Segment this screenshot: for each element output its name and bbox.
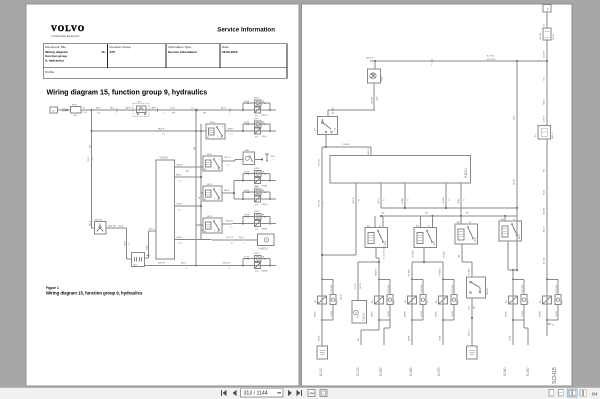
relay RE20 — [365, 228, 388, 248]
svg-text:Date: Date — [222, 45, 229, 49]
svg-text:MA M5: MA M5 — [435, 311, 438, 317]
tick — [431, 59, 433, 62]
bus wire 2 — [200, 124, 202, 240]
svg-text:970: 970 — [255, 115, 258, 117]
relay contact right chain — [546, 278, 548, 280]
svg-text:9B 75A: 9B 75A — [552, 34, 555, 40]
svg-text:8.110: 8.110 — [319, 368, 323, 376]
svg-text:TRIG: TRIG — [271, 156, 276, 158]
fuse branch of MA M5 — [443, 278, 454, 280]
svg-text:D13: D13 — [337, 300, 339, 303]
svg-text:D 4: D 4 — [535, 134, 537, 137]
svg-text:9 70A: 9 70A — [244, 173, 250, 176]
svg-text:CHA B: CHA B — [176, 236, 182, 239]
svg-text:9B2: 9B2 — [203, 113, 206, 115]
wire vertical feed — [91, 110, 93, 228]
svg-text:EA15: EA15 — [96, 106, 101, 109]
relay RE13 — [203, 218, 222, 233]
svg-text:9: 9 — [243, 243, 244, 245]
svg-text:FRSA B: FRSA B — [442, 197, 445, 204]
junction bus — [195, 109, 197, 111]
svg-text:9A02 B: 9A02 B — [158, 128, 165, 131]
svg-text:POLL W: POLL W — [226, 237, 233, 239]
toolbar continuous icon — [559, 390, 564, 397]
svg-text:COM F: COM F — [176, 204, 183, 206]
bus wire — [195, 110, 197, 266]
svg-text:B1: B1 — [469, 222, 471, 224]
svg-text:D42: D42 — [506, 300, 508, 303]
V-ECU pin wire TRIG B — [175, 166, 204, 168]
svg-text:D7P 5: D7P 5 — [254, 119, 259, 121]
svg-text:TNQ 9: TNQ 9 — [238, 237, 244, 239]
svg-text:G01 EC9: G01 EC9 — [368, 148, 370, 155]
svg-text:RE22: RE22 — [475, 237, 477, 242]
table column separators — [107, 44, 109, 68]
svg-text:9 1: 9 1 — [358, 199, 360, 201]
wire block1 output — [375, 248, 377, 259]
V-ECU pin wire 3 — [175, 205, 202, 207]
svg-text:E19V 600: E19V 600 — [487, 59, 495, 61]
svg-text:SW9701: SW9701 — [95, 219, 104, 221]
svg-text:900: 900 — [474, 306, 476, 309]
wire chain5 end — [512, 320, 514, 345]
svg-text:B1: B1 — [513, 219, 515, 221]
svg-text:9 70A: 9 70A — [244, 191, 250, 194]
V-ECU pin wire GMV B — [380, 183, 382, 208]
svg-text:H-ECU: H-ECU — [259, 246, 268, 250]
svg-text:9 70A: 9 70A — [244, 123, 250, 126]
svg-text:9A05: 9A05 — [146, 254, 150, 257]
document info table frame — [43, 44, 287, 79]
svg-text:B1: B1 — [379, 226, 381, 228]
svg-text:CAFF D: CAFF D — [125, 106, 132, 109]
svg-text:9.080: 9.080 — [409, 367, 413, 376]
svg-text:84: 84 — [592, 391, 598, 397]
svg-text:370: 370 — [110, 50, 115, 54]
fuse D7P 5 parallel branch — [242, 130, 244, 132]
svg-text:D42: D42 — [315, 300, 317, 303]
svg-text:FB02 A4: FB02 A4 — [370, 97, 373, 104]
battery terminal 30 — [543, 5, 551, 13]
svg-text:CB 5: CB 5 — [543, 77, 545, 81]
svg-text:9B 900: 9B 900 — [510, 336, 512, 341]
wire main right chain — [546, 40, 548, 126]
svg-text:AV 9000: AV 9000 — [443, 252, 446, 258]
svg-text:B1: B1 — [428, 226, 430, 228]
svg-text:A2 1364: A2 1364 — [487, 54, 494, 57]
toolbar single page icon — [549, 390, 554, 397]
wire switch output — [106, 227, 127, 229]
svg-text:RE10: RE10 — [210, 122, 216, 124]
svg-text:9B 91A: 9B 91A — [542, 257, 545, 264]
svg-text:WC 9: WC 9 — [88, 156, 90, 161]
toolbar prev-page button — [233, 390, 237, 396]
svg-text:9.070: 9.070 — [437, 367, 441, 376]
wire jog left — [328, 109, 375, 111]
relay contact MRBT — [243, 223, 276, 225]
svg-text:900: 900 — [358, 338, 360, 341]
svg-text:9A0 B: 9A0 B — [224, 189, 230, 192]
wire block4 output — [507, 241, 509, 270]
svg-text:96: 96 — [552, 325, 554, 327]
svg-text:D7B 9: D7B 9 — [254, 253, 259, 255]
wire — [546, 12, 548, 28]
svg-text:7 6: 7 6 — [162, 134, 165, 136]
svg-text:9A 900: 9A 900 — [317, 336, 320, 341]
svg-text:MRBT: MRBT — [262, 228, 268, 230]
svg-text:RH02 H: RH02 H — [468, 329, 470, 336]
svg-text:15,: 15, — [101, 50, 105, 54]
fuse FU1 — [543, 28, 551, 40]
wire bottom rail — [145, 265, 244, 267]
ECU I-ECU — [352, 301, 366, 324]
svg-text:9.060: 9.060 — [503, 367, 507, 376]
tick — [229, 108, 231, 111]
svg-text:G4 C1 9: G4 C1 9 — [360, 283, 362, 289]
switch SW9701 — [95, 222, 107, 235]
relay RE23 — [499, 221, 522, 241]
wire chain2 branch end — [389, 320, 391, 328]
svg-text:function group: function group — [45, 54, 67, 58]
table row separator — [43, 67, 287, 69]
svg-text:X2: X2 — [231, 243, 233, 245]
svg-text:9.050: 9.050 — [526, 367, 530, 376]
svg-text:B9: B9 — [543, 24, 545, 26]
fuse branch of MA M7 — [379, 278, 390, 280]
svg-text:V-ECU: V-ECU — [160, 155, 169, 159]
svg-text:G004: G004 — [377, 97, 379, 101]
relay contact MA M6 — [411, 278, 413, 280]
svg-text:D42: D42 — [372, 300, 374, 303]
svg-text:MRB0: MRB0 — [262, 185, 268, 187]
svg-text:Figure 1: Figure 1 — [46, 286, 59, 290]
tick — [196, 108, 198, 111]
wire — [58, 109, 71, 111]
svg-text:MRQ9: MRQ9 — [262, 204, 269, 206]
svg-text:RE23: RE23 — [519, 234, 521, 239]
svg-text:D13: D13 — [394, 300, 396, 303]
lamp D7A 4 — [255, 170, 262, 176]
wire switch chain down — [471, 298, 473, 346]
wire mid rail — [381, 207, 517, 209]
wire TA02 output — [255, 159, 263, 161]
tick — [157, 108, 159, 111]
svg-text:SW B: SW B — [124, 240, 126, 246]
wire rail2 — [92, 130, 207, 132]
tick — [116, 108, 118, 111]
svg-text:MA M9: MA M9 — [314, 311, 317, 317]
svg-text:Service Information: Service Information — [217, 27, 275, 34]
svg-text:TRIG B: TRIG B — [176, 165, 183, 167]
svg-text:Document Title: Document Title — [45, 45, 66, 49]
svg-text:POA B: POA B — [457, 198, 460, 204]
svg-text:1: 1 — [431, 64, 432, 66]
svg-text:9 2: 9 2 — [178, 210, 181, 212]
svg-text:SW1 2: SW1 2 — [149, 228, 155, 230]
fuse branch of MA M9 — [322, 278, 333, 280]
junction main drop — [91, 109, 93, 111]
riser — [420, 216, 422, 228]
fuse D7B 9 parallel branch — [242, 265, 244, 267]
wire block2 to TA02 — [222, 160, 235, 162]
relay contact MA M9 — [321, 278, 323, 280]
svg-text:7 2: 7 2 — [407, 199, 409, 201]
svg-text:I-ECU: I-ECU — [361, 313, 365, 321]
lamp D7A 5 — [255, 189, 262, 195]
svg-text:MA M6: MA M6 — [404, 311, 407, 317]
svg-text:SW1 9A: SW1 9A — [317, 200, 320, 207]
svg-text:1: 1 — [116, 113, 117, 115]
relay contact MRB0 — [243, 180, 276, 182]
svg-text:1 5B 888: 1 5B 888 — [342, 144, 349, 146]
terminal box chain1 — [317, 346, 328, 359]
svg-text:D13: D13 — [427, 300, 429, 303]
svg-text:RE21: RE21 — [434, 241, 436, 246]
relay RE22 — [455, 224, 478, 244]
svg-text:9A05: 9A05 — [133, 263, 137, 266]
svg-text:9A02 W: 9A02 W — [226, 220, 233, 223]
fuse FH12 — [71, 107, 82, 114]
svg-text:9AQ 9: 9AQ 9 — [181, 261, 186, 264]
svg-text:FU1 31A: FU1 31A — [539, 32, 542, 40]
svg-text:RE20: RE20 — [385, 241, 387, 246]
wire chain1 end — [321, 320, 323, 346]
svg-text:RH02 W: RH02 W — [366, 58, 373, 60]
svg-text:D42: D42 — [405, 300, 407, 303]
svg-text:9A02 4: 9A02 4 — [542, 99, 545, 105]
svg-text:28.06.2013: 28.06.2013 — [222, 50, 238, 54]
svg-text:D7B 4: D7B 4 — [254, 211, 259, 213]
lamp D7P 5 — [255, 121, 262, 127]
svg-text:D42: D42 — [436, 300, 438, 303]
svg-text:D13: D13 — [562, 300, 564, 303]
svg-text:1: 1 — [164, 113, 165, 115]
svg-text:IO C1 W: IO C1 W — [355, 283, 357, 290]
V-ECU pin wire 2 — [175, 176, 202, 178]
svg-text:100: 100 — [97, 113, 100, 115]
svg-text:GMV B: GMV B — [378, 197, 380, 204]
svg-text:7 9: 7 9 — [230, 134, 233, 136]
svg-text:9V0A B: 9V0A B — [401, 197, 404, 204]
svg-text:D7P 4: D7P 4 — [254, 98, 259, 100]
svg-text:1 0: 1 0 — [92, 157, 94, 160]
svg-text:Wiring diagram 15, function gr: Wiring diagram 15, function group 9, hyd… — [46, 291, 143, 296]
connector box X9 — [132, 253, 145, 267]
wire chain4 end — [442, 320, 444, 345]
svg-text:Construction Equipment: Construction Equipment — [52, 34, 80, 38]
relay RE21 — [414, 228, 437, 248]
lamp D7B 9 — [255, 255, 262, 261]
svg-text:A5 Y002: A5 Y002 — [331, 107, 334, 114]
toolbar first-page button — [223, 390, 227, 396]
fuse branch of MA M6 — [412, 278, 423, 280]
svg-text:9Y 9000B: 9Y 9000B — [413, 250, 415, 258]
wire valve down — [374, 61, 376, 69]
svg-text:LAC9 H: LAC9 H — [551, 132, 554, 139]
svg-text:7 3: 7 3 — [448, 199, 450, 201]
svg-text:A06: A06 — [186, 170, 189, 173]
wire I-ECU tap — [378, 261, 380, 263]
svg-text:MA MH: MA MH — [505, 310, 508, 317]
svg-text:LAC9 H: LAC9 H — [542, 226, 545, 233]
wire right chain lower — [546, 139, 548, 279]
svg-text:MRW0: MRW0 — [262, 270, 269, 272]
wire mid rail left drop — [355, 183, 357, 255]
connector X1 — [62, 108, 64, 111]
svg-text:D13: D13 — [458, 300, 460, 303]
svg-text:A2D AV: A2D AV — [542, 207, 545, 214]
svg-text:9 70A: 9 70A — [244, 102, 250, 105]
fuse D7A 4 parallel branch — [242, 180, 244, 182]
svg-text:RE13: RE13 — [207, 216, 213, 218]
svg-text:970: 970 — [255, 229, 258, 231]
svg-text:B6: B6 — [204, 169, 206, 171]
toolbar background — [0, 388, 600, 399]
toolbar clipboard icon — [320, 390, 327, 397]
svg-text:30: 30 — [83, 107, 85, 109]
svg-text:MRCO: MRCO — [262, 115, 269, 117]
svg-text:9.100: 9.100 — [356, 367, 360, 376]
wire top rail — [370, 60, 547, 62]
svg-text:9AQ 9: 9AQ 9 — [221, 106, 226, 109]
svg-text:B6: B6 — [204, 231, 206, 233]
svg-text:VOLVO: VOLVO — [51, 24, 85, 33]
fuse D7B 4 parallel branch — [242, 223, 244, 225]
svg-text:7: 7 — [272, 160, 273, 162]
wire H-ECU feed — [243, 239, 258, 241]
toolbar next-page button — [288, 390, 292, 396]
svg-text:G01 B9R: G01 B9R — [543, 50, 545, 58]
svg-text:9 70A: 9 70A — [244, 258, 250, 261]
svg-text:9A1 B: 9A1 B — [88, 220, 91, 226]
svg-text:CAF H: CAF H — [151, 106, 157, 109]
svg-text:Information Type:: Information Type: — [168, 45, 192, 49]
svg-text:313 / 1144: 313 / 1144 — [244, 391, 268, 397]
relay contact MA M5 — [442, 278, 444, 280]
svg-text:9.090: 9.090 — [379, 367, 383, 376]
svg-text:D13: D13 — [528, 300, 530, 303]
svg-text:7 4: 7 4 — [178, 181, 181, 183]
svg-text:9000B AV: 9000B AV — [375, 268, 378, 276]
toolbar snapshot icon — [308, 390, 315, 397]
relay contact MA M7 — [378, 278, 380, 280]
junction with top rail — [546, 60, 548, 62]
relay contact MRQ9 — [243, 198, 276, 200]
wire chain5 branch end — [523, 320, 525, 328]
V-ECU pin wire FRSA B — [445, 183, 447, 208]
svg-text:SCH15: SCH15 — [552, 367, 558, 384]
svg-text:9A02 4B: 9A02 4B — [108, 224, 116, 227]
svg-text:V-ECU: V-ECU — [464, 168, 468, 178]
svg-text:7 1: 7 1 — [185, 268, 188, 270]
svg-text:9, hydraulics: 9, hydraulics — [45, 59, 64, 63]
svg-text:9B 91A: 9B 91A — [512, 179, 515, 185]
svg-text:B6: B6 — [207, 137, 209, 139]
wire mid rail B — [381, 215, 517, 217]
wire block2 output split — [423, 248, 425, 263]
lamp D7P 4 — [255, 100, 262, 106]
toolbar two-page continuous icon — [580, 390, 583, 396]
V-ECU pin wire POA B — [460, 183, 462, 216]
block3 left stub — [201, 192, 203, 194]
svg-text:Wiring diagram: Wiring diagram — [45, 50, 68, 54]
svg-text:IC 9: IC 9 — [358, 315, 360, 318]
wire block3 output — [461, 244, 463, 262]
svg-text:D13 9A: D13 9A — [339, 293, 342, 300]
wire to V-ECU top pin — [326, 146, 371, 148]
svg-text:Service Information: Service Information — [168, 50, 197, 54]
svg-text:Function Group: Function Group — [110, 45, 132, 49]
svg-text:7 9: 7 9 — [230, 227, 233, 229]
svg-text:9B2: 9B2 — [172, 113, 175, 115]
lamp D7B 4 — [255, 213, 262, 219]
fuse branch right chain — [547, 278, 558, 280]
svg-text:C4 52: C4 52 — [170, 107, 175, 109]
wire chain3 end — [411, 320, 413, 345]
svg-text:B6: B6 — [204, 199, 206, 201]
svg-text:MA M7: MA M7 — [371, 311, 374, 317]
svg-text:SW B: SW B — [119, 225, 125, 227]
svg-text:CJK9 B: CJK9 B — [543, 115, 545, 122]
fuse branch of MA MH — [513, 278, 524, 280]
valve Y9506 — [368, 69, 381, 83]
svg-text:SW1 B7: SW1 B7 — [158, 262, 165, 264]
svg-text:AV 9000: AV 9000 — [468, 269, 471, 275]
svg-text:9 2: 9 2 — [383, 199, 385, 201]
relay contact MA MH — [512, 278, 514, 280]
svg-text:7 1: 7 1 — [463, 199, 465, 201]
svg-text:970: 970 — [255, 204, 258, 206]
switch SW9701 right page — [467, 277, 486, 298]
connector D4 — [538, 126, 551, 140]
svg-text:9AQ +: 9AQ + — [110, 106, 116, 109]
ECU V-ECU — [156, 160, 175, 259]
svg-text:9 70A: 9 70A — [244, 216, 250, 219]
svg-text:970: 970 — [255, 271, 258, 273]
svg-text:D7A 4: D7A 4 — [254, 167, 259, 170]
svg-text:1: 1 — [229, 113, 230, 115]
svg-text:X2 9: X2 9 — [178, 243, 182, 245]
fuse D7A 5 parallel branch — [242, 198, 244, 200]
svg-text:9 16: 9 16 — [83, 112, 87, 114]
svg-text:970: 970 — [255, 136, 258, 138]
svg-text:9A 5B: 9A 5B — [542, 189, 545, 195]
left page — [26, 4, 299, 386]
ECU H-ECU — [258, 234, 275, 246]
relay contact MRCO — [243, 109, 276, 111]
wire switch bottom — [325, 135, 327, 148]
block4 left stubs — [196, 224, 203, 226]
svg-text:1 0: 1 0 — [128, 243, 130, 246]
svg-text:CHA B: CHA B — [227, 127, 233, 130]
V-ECU pin wire 9V0A B — [404, 183, 406, 208]
relay contact MRW0 — [243, 265, 276, 267]
svg-text:SW9701: SW9701 — [487, 288, 489, 295]
svg-text:9AW 2: 9AW 2 — [176, 174, 182, 177]
relay RE12 — [203, 186, 222, 201]
V-ECU pin wire CHA B to H-ECU — [175, 239, 248, 242]
relay contact 9RQ0 — [243, 130, 276, 132]
svg-text:Wiring diagram 15, function gr: Wiring diagram 15, function group 9, hyd… — [47, 89, 208, 97]
svg-text:CELL B: CELL B — [224, 157, 231, 159]
svg-text:SW B: SW B — [146, 244, 148, 250]
svg-text:GNV 007: GNV 007 — [318, 159, 320, 166]
probe symbol — [265, 153, 269, 155]
svg-text:CHEQ W: CHEQ W — [222, 262, 230, 264]
svg-text:RE12: RE12 — [207, 184, 213, 186]
battery terminal 30 — [50, 107, 58, 113]
wire block3 output split — [222, 192, 234, 194]
